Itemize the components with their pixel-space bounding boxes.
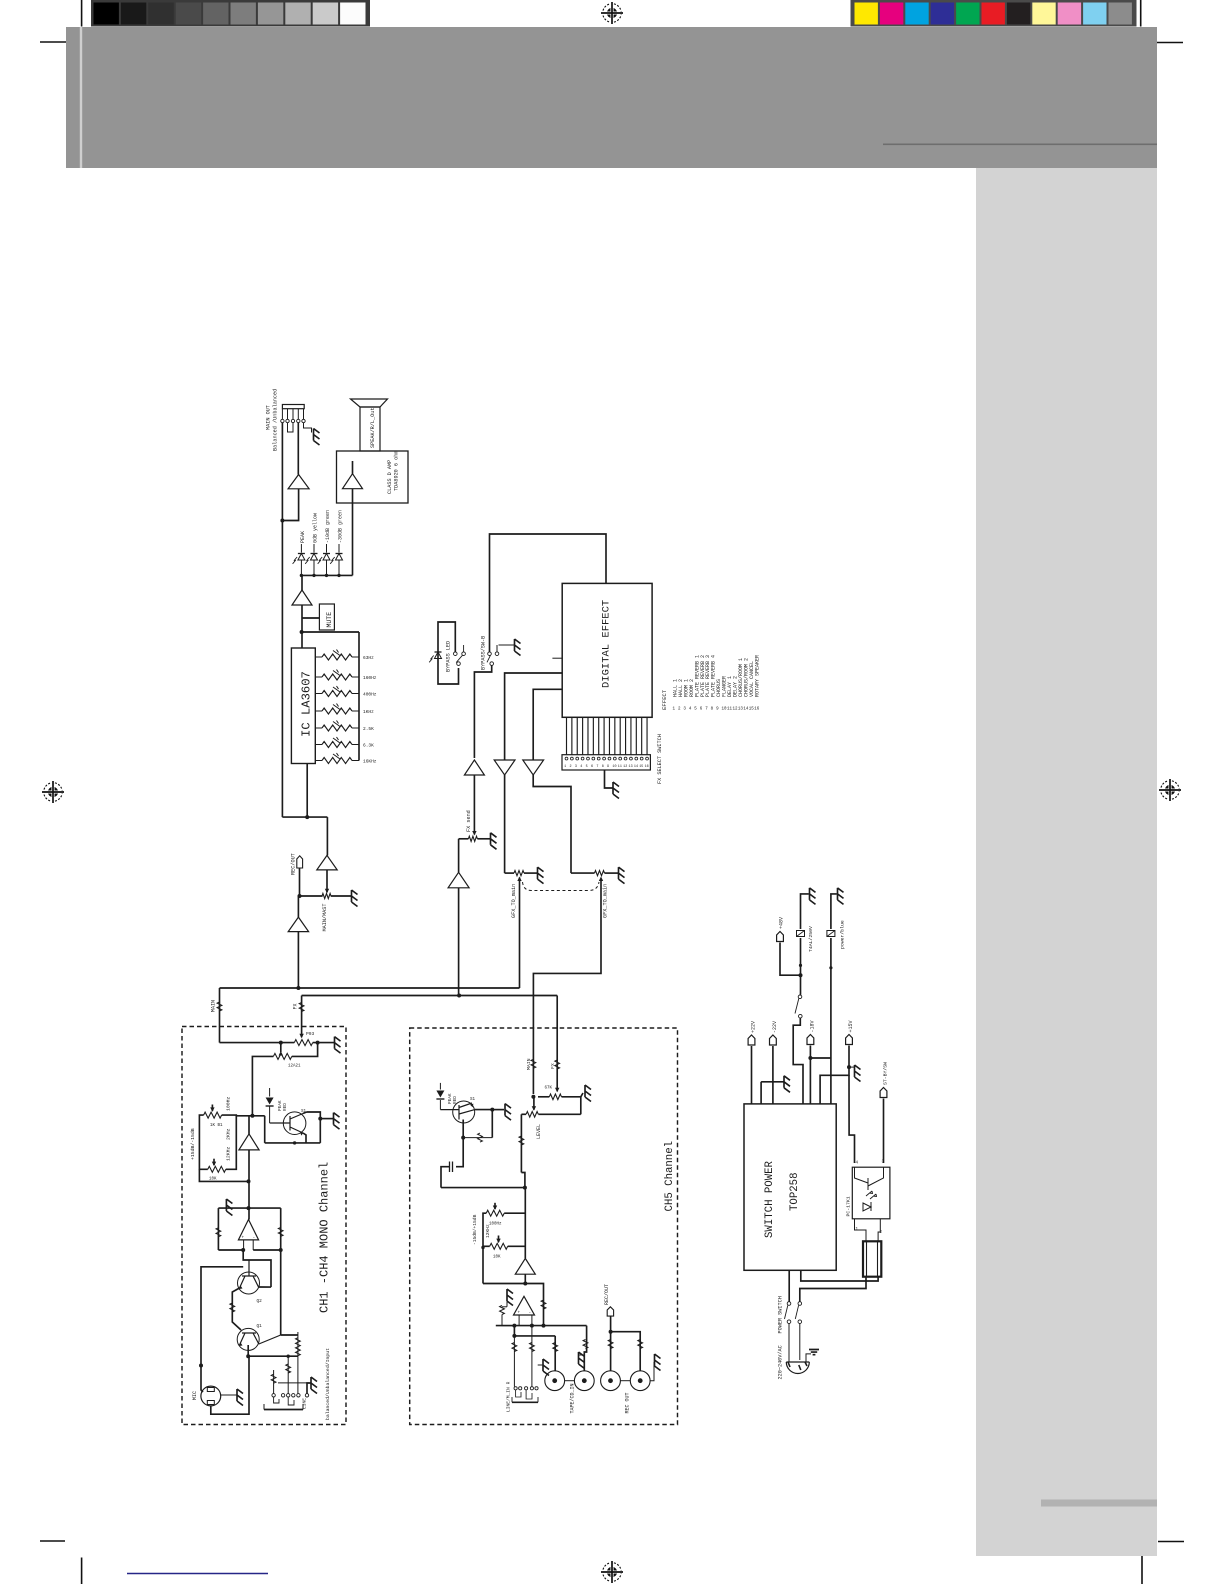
potentiometer ch pan <box>273 1053 291 1059</box>
svg-text:Q2: Q2 <box>257 1299 263 1304</box>
svg-text:12KHz: 12KHz <box>485 1224 491 1238</box>
opto diode symbol <box>863 1202 871 1211</box>
header band light seam <box>80 27 82 168</box>
wire tr emitter row <box>303 1133 306 1143</box>
speaker symbol <box>351 399 388 407</box>
wire plug gnd lead <box>806 1354 811 1362</box>
potentiometer EQ band 160Hz <box>315 676 322 678</box>
svg-text:Balanced /Unbalanced: Balanced /Unbalanced <box>273 389 279 451</box>
junction pan wiper <box>279 1041 283 1045</box>
svg-text:-10dB green: -10dB green <box>325 510 331 543</box>
junction master-bus <box>296 986 300 990</box>
svg-text:12KHz: 12KHz <box>226 1146 232 1161</box>
svg-text:220~240V/AC: 220~240V/AC <box>778 1345 784 1379</box>
ground gfx2 <box>619 867 625 884</box>
svg-text:9: 9 <box>607 765 609 769</box>
wire ch5 opamp1 in <box>524 1188 526 1259</box>
svg-text:BYPASS/SW-B: BYPASS/SW-B <box>481 636 487 670</box>
svg-text:67K: 67K <box>545 1087 553 1091</box>
svg-text:-: - <box>253 1236 256 1241</box>
wire ch5 sum in R <box>531 1315 533 1326</box>
svg-text:4: 4 <box>580 765 582 769</box>
svg-text:IC LA3607: IC LA3607 <box>300 671 314 737</box>
potentiometer ch5 eq A <box>486 1210 504 1216</box>
potentiometer eq high <box>208 1166 226 1172</box>
wire ch5 main drop <box>532 1028 534 1094</box>
svg-text:balanced/Unbalanced/Input: balanced/Unbalanced/Input <box>325 1348 331 1420</box>
svg-text:+15dB/-15dB: +15dB/-15dB <box>190 1128 196 1160</box>
svg-text:16: 16 <box>645 765 649 769</box>
potentiometer ch5 fx <box>556 1090 558 1091</box>
wire to rec buffer <box>326 817 328 855</box>
wire line in 3 <box>297 1332 299 1394</box>
svg-text:MAIN: MAIN <box>211 1000 217 1012</box>
transistor Q1 <box>237 1328 259 1350</box>
op-amp ch input <box>238 1220 258 1240</box>
wire ch5 tr collector <box>475 1109 493 1111</box>
junction fader right <box>316 1041 320 1045</box>
svg-text:3: 3 <box>575 765 577 769</box>
connector AC plug <box>786 1362 809 1374</box>
wire fx bus drop <box>301 996 303 1035</box>
wire line in 1 <box>273 1370 275 1394</box>
svg-text:-18V: -18V <box>809 1020 815 1032</box>
junction 48v <box>799 973 803 977</box>
switch standby <box>800 975 802 995</box>
color calibration strip <box>851 0 1137 27</box>
svg-text:CH1 -CH4 MONO Channel: CH1 -CH4 MONO Channel <box>318 1162 332 1313</box>
wire fuse1 down <box>800 938 802 975</box>
led -30dB green <box>338 544 340 553</box>
wire tr collector gnd <box>303 1112 307 1114</box>
svg-text:15: 15 <box>639 765 643 769</box>
transistor ch peak TR1 <box>283 1112 306 1135</box>
ground tape2 <box>578 1354 584 1356</box>
wire rec5 branch <box>611 1332 641 1371</box>
jack rec out 1 <box>601 1371 621 1391</box>
svg-text:GFX_TO_main: GFX_TO_main <box>603 884 609 918</box>
op-amp fx return B <box>523 760 544 775</box>
wire fx bus right drop <box>556 996 558 1029</box>
gang dashed link <box>523 882 600 891</box>
svg-text:REC OUT: REC OUT <box>625 1392 631 1413</box>
junction ch5 coll <box>490 1108 494 1112</box>
wire level left drop <box>520 1114 522 1172</box>
wire +48v <box>780 943 801 976</box>
wire fx wiper into fader <box>301 1034 303 1037</box>
svg-text:MUTE: MUTE <box>326 612 333 628</box>
svg-text:P93: P93 <box>306 1031 315 1037</box>
wire 15v to opto <box>849 1075 855 1163</box>
wire ch fb right <box>280 1208 282 1250</box>
wire fuse1 <box>801 894 809 929</box>
wire ch5 row2 <box>513 1326 515 1336</box>
junction ch5 sum <box>523 1186 527 1190</box>
led ch5 peak <box>439 1083 441 1090</box>
ic LA3607 box <box>291 648 315 764</box>
potentiometer EQ band 6.3K <box>315 744 322 746</box>
wire stby to opto <box>883 1099 885 1164</box>
svg-text:+15V: +15V <box>848 1020 854 1032</box>
potentiometer EQ band 1KHz <box>315 710 322 712</box>
op-amp main power <box>288 475 309 489</box>
wire main bus <box>220 987 520 989</box>
ground fuse2 <box>838 888 844 905</box>
top-left crop mark vertical <box>81 0 83 27</box>
op-amp rec buffer <box>317 855 337 870</box>
fuse F2 <box>827 931 835 937</box>
wire pan left drop <box>252 1056 273 1115</box>
svg-text:PC-17K1: PC-17K1 <box>846 1196 852 1216</box>
connector fx select pins <box>566 717 568 754</box>
wire mic pin top <box>201 1385 203 1392</box>
wire mute link <box>302 617 319 619</box>
svg-text:16: 16 <box>754 708 760 712</box>
wire line sleeve gnd <box>307 1383 311 1394</box>
svg-text:0dB yellow: 0dB yellow <box>313 513 319 543</box>
svg-text:CLASS D AMP: CLASS D AMP <box>387 460 393 494</box>
wire ch5 fx drop <box>556 1028 558 1090</box>
ground ch fb <box>226 1199 232 1216</box>
svg-text:100Hz: 100Hz <box>226 1096 232 1111</box>
wire ch5 sum in L <box>518 1315 520 1326</box>
potentiometer gfx to main 1 <box>505 872 514 874</box>
sidebar inner bar <box>1041 1500 1157 1507</box>
svg-text:ROTARY SPEAKER: ROTARY SPEAKER <box>754 655 760 697</box>
svg-text:400Hz: 400Hz <box>363 692 377 698</box>
wire eq left loop <box>199 1115 207 1169</box>
ground mic <box>237 1389 243 1406</box>
wire bypass to effect <box>490 534 607 652</box>
svg-text:6.3K: 6.3K <box>363 743 374 749</box>
ground ch5 coll <box>505 1104 511 1121</box>
switch bypass contacts <box>488 652 492 656</box>
wire level right rise <box>580 1097 582 1115</box>
wire gfx2 wiper <box>599 877 603 882</box>
svg-text:-30dB green: -30dB green <box>338 510 344 543</box>
wire ch5 eq left <box>483 1213 486 1283</box>
block CLASS D AMP box <box>337 451 409 503</box>
opto light arrows <box>866 1191 877 1199</box>
resistor ch fb right <box>278 1227 283 1236</box>
svg-text:16KHz: 16KHz <box>363 759 377 765</box>
connector -22V <box>770 1035 777 1045</box>
junction in+ <box>279 1248 283 1252</box>
svg-text:1K B1: 1K B1 <box>210 1124 223 1128</box>
svg-text:FX: FX <box>293 1003 299 1009</box>
resistor main bus drop <box>217 1002 222 1011</box>
wire master out <box>297 932 299 988</box>
svg-text:S1: S1 <box>470 1098 476 1102</box>
svg-text:PEAK: PEAK <box>300 531 306 543</box>
bottom-right tick <box>1158 1541 1184 1543</box>
potentiometer ch5 eq B <box>490 1243 508 1249</box>
wire fuse2 down <box>830 938 832 1104</box>
wire gfx1 wiper <box>519 878 521 989</box>
wire eq feedback bus <box>358 632 360 761</box>
connector MAIN OUT pins <box>281 409 283 420</box>
wire ch5 cap loop <box>456 1138 463 1167</box>
wire bypass riser <box>474 666 491 759</box>
potentiometer fx send <box>468 836 477 841</box>
svg-text:LEVEL: LEVEL <box>536 1124 542 1139</box>
svg-text:+22V: +22V <box>751 1021 757 1033</box>
pin stub de-1 <box>552 657 562 659</box>
switch power 1 <box>787 1302 791 1306</box>
wire q2 base path <box>243 1250 271 1287</box>
junction mic sum <box>246 1354 250 1358</box>
wire eq left drop <box>199 1169 248 1181</box>
led PEAK <box>300 544 302 553</box>
transistor Q2 <box>238 1272 260 1294</box>
junction eq row <box>250 1114 254 1118</box>
jack tape/cd 1 <box>545 1371 565 1391</box>
top-right crop mark vertical <box>1140 0 1142 27</box>
junction fxsum-bus <box>457 994 461 998</box>
wire psu sec2 <box>800 1277 866 1302</box>
connector MAIN OUT plate <box>282 405 304 409</box>
ground bypass <box>515 639 521 656</box>
wire ch5 fb resistor <box>463 1137 492 1139</box>
bottom-left tick <box>40 1540 65 1542</box>
junction ch5 out <box>523 1282 527 1286</box>
wire q2-q1 resistor <box>232 1288 241 1330</box>
jack ch5 hooks <box>516 1390 521 1397</box>
wire fx sum drop <box>458 839 460 873</box>
svg-text:MIC: MIC <box>192 1391 198 1400</box>
ground fx send <box>491 833 497 850</box>
block DIGITAL EFFECT <box>562 583 652 717</box>
svg-text:BYPASS LED: BYPASS LED <box>446 641 452 672</box>
wire ch5 emitter <box>462 1120 464 1138</box>
block CH1-CH4 channel dashed box <box>182 1027 346 1425</box>
wire fuse2 <box>831 894 837 929</box>
svg-text:FX SELECT SWITCH: FX SELECT SWITCH <box>657 734 663 784</box>
transformer T1 <box>863 1241 881 1276</box>
svg-text:2.5K: 2.5K <box>363 726 374 732</box>
wire ch fb top <box>218 1207 280 1209</box>
wire pins 2-3 link <box>288 423 294 432</box>
potentiometer rec level <box>322 893 331 898</box>
ground ch5 opamp <box>507 1289 513 1306</box>
wire eq row drop <box>264 1116 266 1143</box>
fuse F1 <box>797 931 805 937</box>
grayscale calibration strip <box>91 0 370 27</box>
wire ch5 sum row <box>441 1187 525 1189</box>
wire tape2 drop <box>584 1326 586 1371</box>
led 0dB yellow <box>313 544 315 553</box>
junction ch5 emitter <box>461 1136 465 1140</box>
op-amp ch5 buffer <box>515 1258 535 1274</box>
wire fx return B out <box>533 775 571 873</box>
wire fx send feed <box>473 775 475 835</box>
op-amp mute buffer <box>292 590 312 605</box>
junction eq fb <box>247 1179 251 1183</box>
connector REC/OUT jack <box>297 856 303 868</box>
connector ch5 line pins <box>514 1387 517 1390</box>
wire ch5 fx gnd <box>581 1093 583 1097</box>
svg-text:TAPE/CD_IN: TAPE/CD_IN <box>570 1383 576 1413</box>
wire rec5 drop <box>610 1332 612 1371</box>
wire ch fb left <box>217 1208 219 1250</box>
svg-text:SPEAK/R/L_Out: SPEAK/R/L_Out <box>370 408 376 448</box>
bottom-right crop vertical <box>1141 1556 1143 1584</box>
block SWITCH POWER TOP258 <box>744 1104 836 1270</box>
wire pan right up <box>292 1043 318 1057</box>
potentiometer ch5 level <box>533 1097 535 1110</box>
jack rec out 2 <box>630 1371 650 1391</box>
connector +22V <box>748 1035 755 1045</box>
svg-text:+48V: +48V <box>779 917 785 929</box>
wire eq right link <box>222 1115 237 1169</box>
op-amp ch5 sum <box>514 1296 535 1315</box>
svg-text:REC/OUT: REC/OUT <box>291 853 297 875</box>
ground gfx1 <box>538 867 544 884</box>
switch bypass-led contacts <box>454 652 458 656</box>
led ch peak <box>269 1088 271 1097</box>
gray header band <box>66 27 1157 168</box>
op-amp fx send buffer <box>464 760 484 775</box>
svg-text:MAIN OUT: MAIN OUT <box>266 405 272 430</box>
connector ST-BY <box>880 1088 887 1098</box>
wire psu sec1 <box>801 1270 878 1281</box>
led BYPASS loop <box>438 622 459 684</box>
ground ch tr <box>334 1113 340 1130</box>
svg-text:POWER SWITCH: POWER SWITCH <box>778 1296 784 1333</box>
wire fx-select gnd <box>605 770 613 788</box>
wire pan wiper <box>280 1043 282 1052</box>
svg-text:-15dB/+15dB: -15dB/+15dB <box>472 1214 478 1245</box>
wire ch in row left <box>218 1249 243 1251</box>
junction blue/-18 <box>808 1056 812 1060</box>
resistor ch fb left <box>216 1228 221 1237</box>
wire de input 2 <box>505 673 563 760</box>
wire ch5 out right <box>525 1284 543 1326</box>
block fx select box <box>562 755 650 770</box>
wire ch5 out row <box>496 1325 587 1327</box>
wire mic row <box>248 1355 298 1357</box>
wire rec5 down <box>610 1316 612 1332</box>
svg-text:LINE: LINE <box>302 1398 308 1409</box>
svg-text:FX send: FX send <box>466 810 472 832</box>
wire plug leads <box>788 1324 790 1363</box>
wire pin4 to line-amp <box>297 423 299 475</box>
junction mic top <box>199 1364 203 1368</box>
wire pin5 to ground <box>304 423 312 433</box>
wire class-d out <box>352 489 354 576</box>
junction ic-out <box>305 815 309 819</box>
svg-text:6: 6 <box>591 765 593 769</box>
ground 15v <box>849 1066 854 1068</box>
wire bypass gnd branch <box>499 644 515 646</box>
registration mark right <box>1159 779 1181 801</box>
wire 0v rail <box>760 1082 762 1104</box>
wire power-amp out <box>282 489 298 521</box>
wire q2 collector link <box>259 1286 272 1288</box>
svg-text:+: + <box>242 1236 245 1241</box>
wire fx bus <box>302 995 558 997</box>
op-amp main master <box>288 917 308 932</box>
junction tr right <box>318 1117 322 1121</box>
block CH5 dashed box <box>410 1028 678 1425</box>
opto transistor symbol <box>855 1167 884 1190</box>
led bypass indicator <box>435 651 442 653</box>
svg-text:ST-BY/SW: ST-BY/SW <box>883 1062 889 1085</box>
jack tape/cd 2 <box>574 1371 594 1391</box>
wire main-out bus left <box>281 423 283 817</box>
op-amp ch eq <box>239 1134 259 1150</box>
wire tape jacks link <box>565 1380 575 1382</box>
svg-text:14: 14 <box>634 765 638 769</box>
svg-text:RED: RED <box>283 1103 288 1111</box>
jack ch5 body bar <box>512 1401 538 1403</box>
connector LINE jack pins <box>272 1394 275 1397</box>
svg-text:GFX_TO_main: GFX_TO_main <box>511 884 517 918</box>
right sidebar light gray <box>976 168 1157 1556</box>
left margin tick top <box>40 41 66 43</box>
wire eq mid row <box>236 1115 264 1117</box>
svg-text:13: 13 <box>629 765 633 769</box>
wire 15v to box <box>820 1067 849 1104</box>
svg-text:REC/OUT: REC/OUT <box>604 1284 610 1305</box>
wire rec jacks link <box>620 1380 630 1382</box>
wire mute-buffer out <box>301 605 303 648</box>
block optocoupler PC-17K1 <box>852 1167 890 1219</box>
svg-text:7: 7 <box>596 765 598 769</box>
potentiometer EQ band 16KHz <box>315 760 322 762</box>
svg-text:2KHz: 2KHz <box>226 1128 232 1140</box>
op-amp fx return A <box>494 760 515 775</box>
capacitor ch5 <box>450 1162 453 1173</box>
svg-text:CH5 Channel: CH5 Channel <box>664 1141 676 1212</box>
svg-text:LINE/M_IN R: LINE/M_IN R <box>506 1381 512 1412</box>
ground line5 <box>538 1364 543 1366</box>
potentiometer gfx to main 2 <box>571 872 595 874</box>
wire rec jack down <box>299 868 301 896</box>
wire opto pin1 <box>855 1219 867 1242</box>
connector +15V <box>846 1035 853 1045</box>
svg-text:MAIN/MAST: MAIN/MAST <box>322 903 328 931</box>
wire blue branch <box>810 1057 831 1059</box>
op-amp class-d <box>343 474 363 489</box>
resistor fx drop <box>299 1003 304 1012</box>
registration mark left <box>42 781 64 803</box>
registration mark top <box>601 2 623 24</box>
junction input stage <box>247 1206 251 1210</box>
potentiometer ch fader P93 <box>294 1040 312 1046</box>
wire eq opamp out <box>248 1150 250 1220</box>
junction rec5 <box>609 1330 613 1334</box>
svg-text:160Hz: 160Hz <box>363 675 377 681</box>
ground ch fader <box>335 1037 341 1054</box>
svg-text:11: 11 <box>618 765 622 769</box>
wire opto pin2 <box>878 1219 880 1242</box>
right margin tick top <box>1157 42 1183 44</box>
connector MIC xlr <box>201 1386 221 1406</box>
svg-text:12A21: 12A21 <box>288 1065 301 1069</box>
junction 15v <box>847 1065 851 1069</box>
wire eq opamp in <box>248 1116 250 1134</box>
junction rec node <box>298 894 302 898</box>
wire gfx1 feed <box>504 775 506 873</box>
junction in- <box>241 1248 245 1252</box>
wire ch5 coll drop <box>491 1110 493 1138</box>
switch power 2 <box>798 1302 802 1306</box>
svg-text:power/blue: power/blue <box>840 920 846 949</box>
connector rec/out ch5 <box>607 1307 613 1316</box>
svg-text:+: + <box>518 1311 521 1316</box>
svg-text:FX: FX <box>550 1063 556 1069</box>
